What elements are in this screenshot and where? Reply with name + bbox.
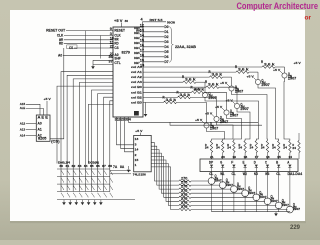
svg-text:270: 270	[181, 205, 187, 209]
svg-text:W3: W3	[265, 172, 269, 176]
svg-text:8279: 8279	[122, 51, 130, 55]
svg-text:2907: 2907	[208, 96, 216, 100]
svg-text:col A2: col A2	[131, 75, 142, 79]
svg-text:W1: W1	[220, 172, 224, 176]
svg-text:G: G	[220, 160, 222, 164]
svg-text:DCB(N): DCB(N)	[88, 161, 99, 165]
svg-text:E: E	[243, 160, 245, 164]
svg-text:3.6 k: 3.6 k	[238, 68, 250, 72]
svg-text:A0: A0	[38, 121, 42, 125]
svg-text:W2: W2	[243, 172, 247, 176]
svg-text:A2: A2	[38, 134, 42, 138]
svg-text:B: B	[276, 160, 278, 164]
svg-text:229: 229	[290, 225, 301, 231]
svg-text:D0: D0	[164, 25, 168, 29]
svg-text:D: D	[254, 160, 256, 164]
svg-text:7A: 7A	[113, 165, 117, 169]
svg-text:A13: A13	[20, 128, 26, 132]
svg-text:87: 87	[102, 164, 106, 168]
svg-text:D7: D7	[164, 60, 168, 64]
svg-text:D2: D2	[164, 35, 168, 39]
svg-text:24: 24	[216, 146, 220, 150]
svg-text:3.6 k: 3.6 k	[166, 98, 178, 102]
svg-text:83: 83	[78, 164, 82, 168]
svg-text:R: R	[177, 90, 179, 94]
svg-text:A1: A1	[38, 128, 42, 132]
svg-text:3.6 k: 3.6 k	[180, 93, 192, 97]
svg-text:col A1: col A1	[131, 70, 142, 74]
svg-text:+5 V: +5 V	[205, 111, 212, 115]
svg-text:3.6 k: 3.6 k	[208, 83, 220, 87]
svg-text:21: 21	[210, 155, 214, 159]
svg-text:D5: D5	[164, 50, 168, 54]
svg-text:84: 84	[84, 164, 88, 168]
svg-text:+5 V: +5 V	[215, 105, 222, 109]
svg-text:17: 17	[140, 48, 144, 52]
svg-text:R: R	[182, 75, 184, 79]
svg-text:RESET: RESET	[114, 29, 125, 33]
svg-text:3.6 k: 3.6 k	[264, 62, 276, 66]
svg-text:3.6 k: 3.6 k	[194, 88, 206, 92]
svg-text:24: 24	[250, 146, 254, 150]
svg-text:A0: A0	[58, 53, 62, 57]
svg-text:18: 18	[244, 155, 248, 159]
svg-text:19: 19	[232, 155, 236, 159]
svg-text:+5 V: +5 V	[195, 118, 202, 122]
svg-text:12: 12	[140, 23, 144, 27]
svg-text:2907: 2907	[230, 114, 238, 118]
svg-text:+5 V: +5 V	[273, 68, 280, 72]
svg-text:CTL: CTL	[114, 61, 121, 65]
svg-text:+5 V: +5 V	[114, 19, 123, 23]
svg-text:24: 24	[272, 146, 276, 150]
svg-text:2907: 2907	[288, 77, 296, 81]
svg-text:Computer Architecture: Computer Architecture	[237, 1, 319, 11]
svg-text:RESET OUT: RESET OUT	[46, 29, 65, 33]
svg-text:A E E: A E E	[38, 116, 49, 120]
svg-text:88: 88	[108, 164, 112, 168]
svg-text:R: R	[205, 80, 207, 84]
svg-text:+5 V: +5 V	[135, 129, 142, 133]
svg-text:2907: 2907	[235, 90, 243, 94]
svg-text:DN0,1/4: DN0,1/4	[58, 161, 71, 165]
svg-text:85: 85	[90, 164, 94, 168]
svg-text:D3: D3	[164, 40, 168, 44]
svg-text:NO: NO	[254, 172, 258, 176]
svg-text:RD: RD	[59, 42, 64, 46]
svg-text:R: R	[163, 95, 165, 99]
svg-text:D1: D1	[164, 30, 168, 34]
svg-text:+5 V: +5 V	[294, 61, 301, 65]
svg-text:2907: 2907	[240, 107, 248, 111]
svg-text:17: 17	[255, 155, 259, 159]
svg-text:14: 14	[288, 155, 292, 159]
svg-text:R: R	[209, 70, 211, 74]
svg-text:9: 9	[110, 27, 112, 31]
svg-text:A14: A14	[20, 134, 26, 138]
svg-text:22AA, 32AB: 22AA, 32AB	[175, 45, 197, 49]
svg-text:36: 36	[109, 55, 113, 59]
svg-text:22: 22	[110, 45, 114, 49]
svg-text:86: 86	[96, 164, 100, 168]
svg-text:24: 24	[283, 146, 287, 150]
svg-text:15: 15	[140, 38, 144, 42]
svg-text:50CW: 50CW	[167, 20, 175, 24]
svg-text:or: or	[305, 14, 312, 21]
svg-text:CS: CS	[114, 46, 119, 50]
svg-text:16: 16	[266, 155, 270, 159]
svg-text:3.6 k: 3.6 k	[185, 78, 197, 82]
svg-text:+5 V: +5 V	[220, 81, 227, 85]
svg-text:24: 24	[205, 146, 209, 150]
svg-text:col B2: col B2	[131, 95, 142, 99]
svg-text:82: 82	[72, 164, 76, 168]
svg-text:CS: CS	[69, 46, 74, 50]
svg-text:20: 20	[221, 155, 225, 159]
svg-text:3.6 k: 3.6 k	[212, 73, 224, 77]
svg-text:col A0: col A0	[131, 65, 142, 69]
svg-text:2907: 2907	[261, 83, 269, 87]
svg-text:SHF: SHF	[114, 57, 121, 61]
svg-text:A: A	[287, 160, 289, 164]
svg-text:2907: 2907	[210, 127, 218, 131]
svg-text:RST 5.5: RST 5.5	[150, 18, 163, 22]
svg-text:16: 16	[140, 43, 144, 47]
svg-text:19: 19	[140, 58, 144, 62]
svg-text:80: 80	[60, 164, 64, 168]
svg-text:R: R	[261, 60, 263, 64]
svg-text:col B1: col B1	[131, 90, 142, 94]
svg-text:(CS): (CS)	[51, 140, 60, 144]
svg-text:col A3: col A3	[131, 80, 142, 84]
svg-text:DP: DP	[209, 160, 214, 164]
svg-text:D6: D6	[164, 55, 168, 59]
svg-text:74LS156: 74LS156	[133, 173, 146, 177]
svg-text:col B3: col B3	[131, 100, 142, 104]
svg-text:15: 15	[135, 158, 139, 162]
svg-text:13: 13	[135, 137, 139, 141]
svg-text:24: 24	[261, 146, 265, 150]
svg-text:R: R	[235, 65, 237, 69]
svg-text:14: 14	[135, 148, 139, 152]
svg-text:+5 V: +5 V	[44, 97, 51, 101]
svg-text:81: 81	[66, 164, 70, 168]
svg-text:+5 V: +5 V	[247, 74, 254, 78]
svg-text:col B0: col B0	[131, 85, 142, 89]
svg-text:40: 40	[125, 19, 129, 23]
svg-text:24: 24	[227, 146, 231, 150]
svg-text:8A: 8A	[120, 165, 124, 169]
svg-text:R: R	[191, 85, 193, 89]
svg-text:13: 13	[140, 28, 144, 32]
svg-text:A12: A12	[20, 121, 26, 125]
svg-text:C: C	[265, 160, 267, 164]
svg-text:2907: 2907	[220, 120, 228, 124]
svg-text:24: 24	[239, 146, 243, 150]
svg-text:24: 24	[292, 146, 296, 150]
svg-text:18: 18	[140, 53, 144, 57]
svg-text:ALE: ALE	[20, 106, 26, 110]
svg-text:15: 15	[277, 155, 281, 159]
svg-text:2907: 2907	[293, 207, 301, 211]
